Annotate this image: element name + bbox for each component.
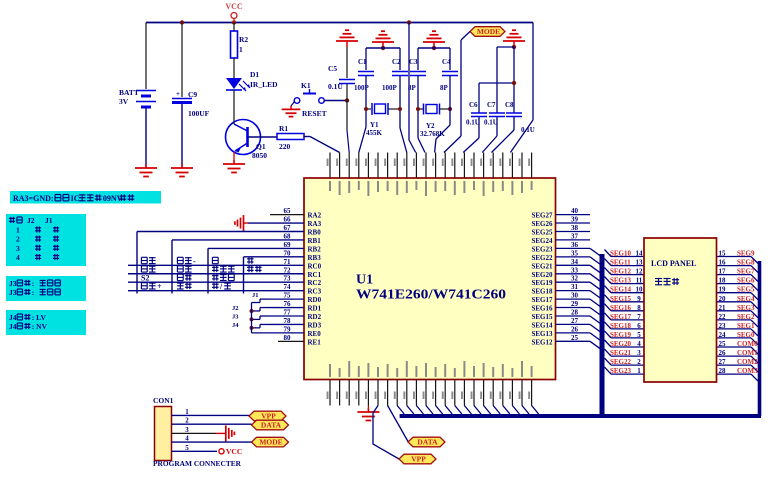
svg-text:6: 6	[637, 322, 641, 330]
svg-text:SEG19: SEG19	[610, 331, 632, 339]
svg-text::: :	[32, 279, 35, 288]
svg-text:R1: R1	[279, 124, 288, 133]
svg-text:38: 38	[571, 224, 579, 232]
svg-text:D1: D1	[250, 70, 259, 79]
svg-text:25: 25	[719, 340, 727, 348]
svg-text:RD1: RD1	[308, 305, 322, 313]
svg-text:100P: 100P	[354, 84, 370, 92]
svg-text:13: 13	[636, 259, 644, 267]
svg-text:SEG25: SEG25	[531, 229, 553, 237]
svg-text:20: 20	[719, 295, 727, 303]
svg-text:26: 26	[571, 325, 579, 333]
svg-text:RESET: RESET	[302, 109, 327, 118]
svg-text:21: 21	[719, 304, 727, 312]
svg-text:J2: J2	[232, 305, 239, 312]
svg-text:39: 39	[571, 216, 579, 224]
svg-text:COM2: COM2	[737, 358, 758, 366]
svg-text:RC1: RC1	[308, 271, 322, 279]
svg-text:IC: IC	[71, 194, 80, 203]
svg-text:J4: J4	[9, 322, 17, 331]
svg-text:Y2: Y2	[426, 122, 435, 130]
svg-text:+: +	[176, 90, 180, 98]
svg-text:SEG21: SEG21	[610, 349, 632, 357]
svg-text:16: 16	[719, 259, 727, 267]
svg-text:COM0: COM0	[737, 340, 758, 348]
svg-text:RA2: RA2	[308, 212, 322, 220]
svg-text:SEG23: SEG23	[610, 367, 632, 375]
svg-text:3: 3	[16, 244, 20, 253]
svg-text:68: 68	[284, 232, 292, 240]
svg-text:C5: C5	[328, 64, 337, 73]
svg-text:: LV: : LV	[32, 313, 47, 322]
svg-text:SEG10: SEG10	[610, 250, 632, 258]
svg-text:220: 220	[279, 142, 291, 151]
svg-text:23: 23	[719, 322, 727, 330]
svg-text:5: 5	[637, 331, 641, 339]
svg-text:32: 32	[571, 275, 579, 283]
svg-text:J4: J4	[232, 322, 239, 329]
svg-text:C3: C3	[409, 58, 418, 66]
svg-text:RB0: RB0	[308, 229, 322, 237]
svg-text:100P: 100P	[382, 84, 398, 92]
svg-text:18: 18	[719, 277, 727, 285]
svg-text:MODE: MODE	[259, 438, 282, 447]
svg-text:4: 4	[16, 253, 20, 262]
svg-text:SEG11: SEG11	[610, 259, 631, 267]
svg-text:SEG3: SEG3	[737, 304, 755, 312]
svg-text:SEG12: SEG12	[531, 338, 553, 346]
svg-text:SEG20: SEG20	[610, 340, 632, 348]
svg-text:J2: J2	[27, 216, 35, 225]
svg-text:SEG6: SEG6	[737, 277, 755, 285]
svg-text:SEG9: SEG9	[737, 250, 755, 258]
svg-text:80: 80	[284, 334, 292, 342]
svg-text:RD2: RD2	[308, 313, 322, 321]
svg-text:J1: J1	[45, 216, 53, 225]
svg-text:33: 33	[571, 266, 579, 274]
svg-text:74: 74	[284, 283, 292, 291]
svg-text:8P: 8P	[408, 84, 417, 92]
svg-text:RB1: RB1	[308, 237, 322, 245]
svg-text:SEG22: SEG22	[531, 254, 553, 262]
svg-text:K1: K1	[301, 81, 311, 90]
svg-text:SEG17: SEG17	[610, 313, 632, 321]
svg-text:J3: J3	[232, 314, 239, 321]
svg-text:SEG1: SEG1	[737, 322, 755, 330]
svg-text:LCD PANEL: LCD PANEL	[651, 259, 696, 268]
svg-text:77: 77	[284, 309, 292, 317]
svg-text:4: 4	[637, 340, 641, 348]
svg-text:C7: C7	[487, 101, 496, 109]
svg-text:COM1: COM1	[737, 349, 758, 357]
svg-text:PROGRAM CONNECTER: PROGRAM CONNECTER	[153, 459, 242, 468]
svg-text:1: 1	[185, 408, 189, 416]
svg-text:25: 25	[571, 334, 579, 342]
svg-text:11: 11	[636, 277, 643, 285]
svg-text:17: 17	[719, 268, 727, 276]
svg-text:SEG2: SEG2	[737, 313, 755, 321]
svg-text:14: 14	[636, 250, 644, 258]
svg-text:S2: S2	[141, 274, 149, 283]
svg-text:BATT: BATT	[119, 88, 139, 97]
svg-text:27: 27	[719, 358, 727, 366]
svg-text:SEG4: SEG4	[737, 295, 755, 303]
svg-text:J3: J3	[9, 288, 17, 297]
svg-text:8P: 8P	[440, 84, 449, 92]
svg-text:: NV: : NV	[32, 322, 48, 331]
svg-text:28: 28	[719, 367, 727, 375]
svg-text:VPP: VPP	[261, 412, 276, 421]
svg-text:RB3: RB3	[308, 254, 322, 262]
svg-text:0.1U: 0.1U	[484, 119, 498, 127]
svg-text:26: 26	[719, 349, 727, 357]
svg-text:SEG20: SEG20	[531, 271, 553, 279]
svg-text:3: 3	[637, 349, 641, 357]
svg-text:RD0: RD0	[308, 296, 322, 304]
svg-text:DATA: DATA	[261, 421, 282, 430]
svg-text:40: 40	[571, 207, 579, 215]
svg-text:SEG24: SEG24	[531, 237, 553, 245]
svg-text:15: 15	[719, 250, 727, 258]
svg-text:75: 75	[284, 292, 292, 300]
svg-text:SEG15: SEG15	[531, 313, 553, 321]
svg-text:37: 37	[571, 232, 579, 240]
svg-text:3V: 3V	[119, 97, 129, 106]
svg-text:4: 4	[185, 435, 189, 443]
svg-text:C9: C9	[188, 90, 197, 99]
svg-text:SEG5: SEG5	[737, 286, 755, 294]
svg-text:C6: C6	[469, 101, 478, 109]
svg-text:-: -	[193, 257, 196, 266]
svg-text:SEG16: SEG16	[610, 304, 632, 312]
svg-text:SEG26: SEG26	[531, 220, 553, 228]
svg-text:C1: C1	[358, 58, 367, 66]
svg-text:3: 3	[185, 426, 189, 434]
svg-text:VPP: VPP	[411, 455, 426, 464]
svg-text:RC2: RC2	[308, 279, 322, 287]
svg-text:SEG19: SEG19	[531, 279, 553, 287]
svg-text:VCC: VCC	[226, 447, 242, 456]
svg-text:27: 27	[571, 317, 579, 325]
svg-text:12: 12	[636, 268, 644, 276]
svg-text:36: 36	[571, 241, 579, 249]
svg-text:SEG12: SEG12	[610, 268, 632, 276]
svg-text:1: 1	[239, 45, 243, 54]
svg-text:5: 5	[185, 444, 189, 452]
svg-text:C2: C2	[392, 58, 401, 66]
svg-text:SEG18: SEG18	[531, 288, 553, 296]
svg-text:RD3: RD3	[308, 321, 322, 329]
svg-text:SEG23: SEG23	[531, 245, 553, 253]
svg-text:U1: U1	[356, 273, 373, 288]
svg-text:RE1: RE1	[308, 338, 322, 346]
svg-text:28: 28	[571, 309, 579, 317]
svg-text:COM3: COM3	[737, 367, 758, 375]
svg-text:7: 7	[637, 313, 641, 321]
svg-text:SEG16: SEG16	[531, 305, 553, 313]
svg-text:RA3=GND:: RA3=GND:	[13, 194, 54, 203]
svg-text:SEG8: SEG8	[737, 259, 755, 267]
svg-text:C4: C4	[442, 58, 451, 66]
svg-text:J4: J4	[9, 313, 17, 322]
svg-text:DATA: DATA	[417, 438, 438, 447]
svg-text:IR_LED: IR_LED	[250, 80, 278, 89]
svg-text:MODE: MODE	[477, 27, 500, 36]
svg-text:RE0: RE0	[308, 330, 322, 338]
svg-text:SEG0: SEG0	[737, 331, 755, 339]
svg-text:RA3: RA3	[308, 220, 322, 228]
svg-text:J3: J3	[9, 279, 17, 288]
svg-text:19: 19	[719, 286, 727, 294]
svg-text:78: 78	[284, 317, 292, 325]
svg-text:SEG17: SEG17	[531, 296, 553, 304]
svg-text:10: 10	[636, 286, 644, 294]
svg-text:SEG7: SEG7	[737, 268, 755, 276]
svg-text:455K: 455K	[366, 129, 383, 137]
svg-text:RC0: RC0	[308, 262, 322, 270]
svg-text:SEG27: SEG27	[531, 212, 553, 220]
svg-text:SEG22: SEG22	[610, 358, 632, 366]
svg-text:VCC: VCC	[225, 2, 243, 11]
svg-text:9: 9	[637, 295, 641, 303]
svg-text:C8: C8	[505, 101, 514, 109]
svg-text:24: 24	[719, 331, 727, 339]
svg-text:J1: J1	[252, 292, 259, 299]
svg-text:09NV: 09NV	[103, 194, 123, 203]
svg-text:RC3: RC3	[308, 288, 322, 296]
svg-text:RB2: RB2	[308, 245, 322, 253]
svg-text:CON1: CON1	[153, 396, 174, 405]
svg-text:SEG15: SEG15	[610, 295, 632, 303]
svg-text:Q1: Q1	[256, 142, 266, 151]
svg-text:34: 34	[571, 258, 579, 266]
svg-text:SEG21: SEG21	[531, 262, 553, 270]
svg-text:65: 65	[284, 207, 292, 215]
svg-text::: :	[32, 288, 35, 297]
svg-text:1: 1	[637, 367, 641, 375]
svg-text:100UF: 100UF	[188, 109, 210, 118]
svg-text:8050: 8050	[252, 151, 267, 160]
svg-text:SEG13: SEG13	[531, 330, 553, 338]
svg-text:31: 31	[571, 283, 579, 291]
svg-text:SEG14: SEG14	[531, 321, 553, 329]
svg-text:SEG13: SEG13	[610, 277, 632, 285]
svg-text:29: 29	[571, 300, 579, 308]
svg-text:8: 8	[637, 304, 641, 312]
svg-text:79: 79	[284, 325, 292, 333]
svg-text:Y1: Y1	[370, 121, 379, 129]
svg-text:2: 2	[16, 235, 20, 244]
svg-text:35: 35	[571, 249, 579, 257]
svg-text:R2: R2	[239, 35, 248, 44]
svg-text:2: 2	[637, 358, 641, 366]
svg-text:2: 2	[185, 417, 189, 425]
svg-text:+: +	[157, 282, 162, 291]
svg-text:W741E260/W741C260: W741E260/W741C260	[356, 288, 506, 303]
svg-text:30: 30	[571, 292, 579, 300]
svg-text:76: 76	[284, 300, 292, 308]
svg-text:22: 22	[719, 313, 727, 321]
svg-text:0.1U: 0.1U	[466, 119, 480, 127]
svg-text:SEG18: SEG18	[610, 322, 632, 330]
svg-text:SEG14: SEG14	[610, 286, 632, 294]
svg-text:66: 66	[284, 216, 292, 224]
svg-text:1: 1	[16, 226, 20, 235]
